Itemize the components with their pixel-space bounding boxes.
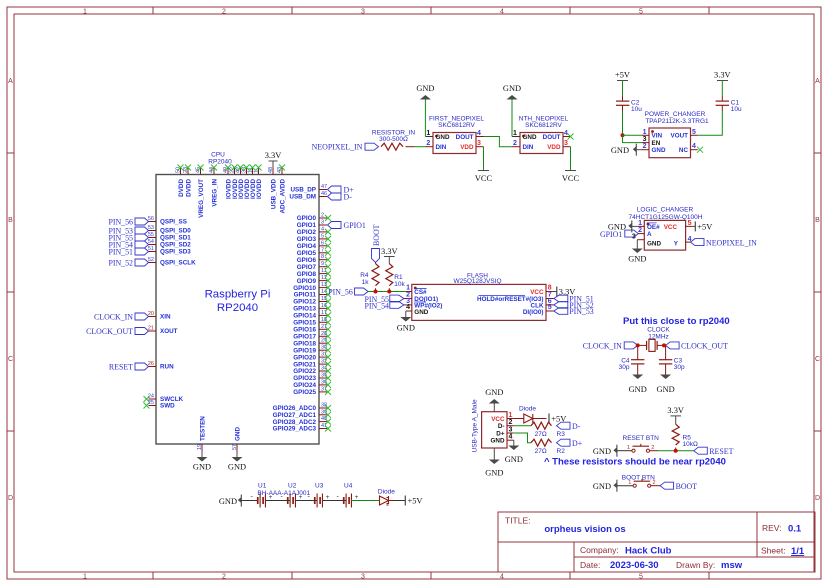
- svg-text:GPIO24: GPIO24: [293, 382, 316, 389]
- wire junction to VIN: [623, 134, 643, 136]
- wire PIN_56 to CS#: [368, 291, 406, 293]
- wire junction to EN: [623, 135, 643, 142]
- ground (sideways) at BOOT button: [593, 480, 633, 492]
- svg-text:U1: U1: [258, 482, 267, 489]
- svg-text:0.1: 0.1: [788, 524, 802, 535]
- svg-text:300-500Ω: 300-500Ω: [379, 136, 408, 143]
- wire NTH_NEOPIXEL VDD to VCC: [570, 147, 572, 171]
- power 3.3V (sideways) at flash VCC: [552, 287, 575, 297]
- svg-text:XIN: XIN: [160, 314, 171, 321]
- svg-text:POWER_CHANGER: POWER_CHANGER: [645, 111, 706, 118]
- svg-text:55: 55: [148, 232, 154, 238]
- svg-text:1k: 1k: [362, 279, 370, 286]
- svg-text:10u: 10u: [731, 106, 742, 113]
- svg-text:26: 26: [148, 361, 154, 367]
- wire C2 to VIN junction: [622, 111, 624, 135]
- svg-text:GPIO2: GPIO2: [297, 229, 317, 236]
- ground (sideways) at RESET button: [593, 445, 632, 457]
- power +5V above C2: [615, 71, 630, 81]
- junction R5/RESET: [674, 449, 678, 453]
- svg-text:D+: D+: [496, 430, 505, 437]
- svg-text:CLOCK_OUT: CLOCK_OUT: [681, 342, 728, 351]
- svg-text:GND: GND: [593, 447, 611, 456]
- svg-text:BOOT BTN: BOOT BTN: [622, 474, 655, 481]
- junction crystal right: [662, 343, 666, 347]
- svg-text:Diode: Diode: [378, 489, 395, 496]
- svg-text:30p: 30p: [674, 364, 685, 371]
- diode (schottky) battery: [378, 489, 395, 505]
- svg-text:7: 7: [321, 247, 324, 253]
- svg-text:1: 1: [83, 574, 87, 581]
- svg-text:Sheet:: Sheet:: [761, 546, 786, 556]
- svg-text:B: B: [815, 217, 820, 224]
- svg-text:GPIO16: GPIO16: [293, 327, 316, 334]
- svg-text:B: B: [8, 217, 13, 224]
- svg-text:GPIO22: GPIO22: [293, 368, 316, 375]
- svg-text:Diode: Diode: [519, 406, 536, 413]
- svg-text:GND: GND: [485, 468, 503, 477]
- svg-text:USB-Type A_Male: USB-Type A_Male: [472, 399, 479, 452]
- GPIO pin names: [293, 215, 316, 396]
- svg-text:GPIO1: GPIO1: [600, 230, 622, 239]
- ic FLASH W25Q128JVSIQ: [404, 272, 554, 320]
- pin 26 RUN with global label RESET: [109, 361, 174, 372]
- svg-text:GND: GND: [491, 438, 505, 445]
- svg-text:W25Q128JVSIQ: W25Q128JVSIQ: [453, 278, 501, 285]
- svg-text:GPIO25: GPIO25: [293, 389, 316, 396]
- svg-text:IOVDD: IOVDD: [256, 179, 263, 199]
- pin 52 QSPI_SCLK with global label PIN_52: [108, 257, 196, 268]
- junction R1: [387, 290, 391, 294]
- svg-text:PIN_54: PIN_54: [364, 302, 389, 311]
- ic FIRST_NEOPIXEL SKC6812RV: [425, 115, 484, 153]
- svg-text:DVDD: DVDD: [185, 179, 192, 197]
- ic POWER_CHANGER TPAP2112K-3.3TRG1: [642, 111, 709, 158]
- svg-text:2023-06-30: 2023-06-30: [610, 560, 659, 571]
- svg-text:52: 52: [148, 257, 154, 263]
- svg-text:U3: U3: [315, 482, 324, 489]
- ground below C3: [657, 375, 675, 394]
- power 3.3V at USB_VDD: [265, 151, 282, 168]
- pin 55 QSPI_SD1 with global label PIN_55: [108, 232, 191, 243]
- svg-text:D-: D-: [344, 193, 353, 202]
- resistor R2 27ohm: [531, 439, 565, 455]
- global label D+: [557, 439, 583, 448]
- svg-text:GND: GND: [505, 455, 523, 464]
- wire switch to BOOT label: [651, 485, 660, 487]
- svg-text:RESET: RESET: [109, 363, 133, 372]
- svg-text:1/1: 1/1: [791, 546, 805, 557]
- pin 53 QSPI_SD0 with global label PIN_53: [108, 225, 191, 236]
- svg-text:GPIO1: GPIO1: [344, 221, 366, 230]
- connector USB-Type A_Male: [472, 399, 514, 452]
- svg-text:PIN_56: PIN_56: [108, 218, 133, 227]
- pin 47 USB_DP with global label D+: [290, 184, 354, 195]
- svg-text:USB_VDD: USB_VDD: [270, 179, 277, 210]
- TITLEBLOCK: [498, 512, 815, 572]
- no-connect X on NTH DOUT: [568, 134, 574, 140]
- svg-text:D: D: [8, 495, 13, 502]
- svg-text:1: 1: [638, 220, 642, 227]
- svg-text:USB_DM: USB_DM: [289, 194, 316, 201]
- svg-text:Company:: Company:: [580, 545, 619, 555]
- global label BOOT: [660, 482, 697, 491]
- svg-text:LOGIC_CHANGER: LOGIC_CHANGER: [637, 207, 694, 214]
- svg-text:+5V: +5V: [615, 71, 630, 80]
- svg-text:orpheus vision os: orpheus vision os: [544, 524, 625, 535]
- svg-text:3: 3: [477, 140, 481, 147]
- svg-text:QSPI_SD1: QSPI_SD1: [160, 235, 191, 242]
- wire NTH_NEOPIXEL GND pin to ground: [511, 100, 513, 137]
- svg-text:VCC: VCC: [475, 174, 493, 183]
- svg-text:5: 5: [321, 233, 324, 239]
- svg-text:GND: GND: [416, 84, 434, 93]
- svg-text:A: A: [647, 231, 652, 238]
- no-connect marks on GPIO pins: [325, 215, 331, 395]
- RP2040 GPIO pins GPIO0-GPIO25: [319, 218, 327, 392]
- pin 51 QSPI_SD3 with global label PIN_51: [108, 246, 191, 257]
- svg-text:GPIO6: GPIO6: [297, 257, 317, 264]
- diode at USB VCC: [514, 406, 547, 423]
- svg-text:RP2040: RP2040: [217, 302, 258, 314]
- svg-text:47: 47: [321, 184, 327, 190]
- svg-text:XOUT: XOUT: [160, 328, 178, 335]
- svg-text:GND: GND: [234, 427, 241, 441]
- svg-text:A: A: [815, 78, 820, 85]
- svg-text:VIN: VIN: [652, 133, 663, 140]
- svg-text:U2: U2: [288, 482, 297, 489]
- svg-text:19: 19: [197, 444, 203, 450]
- wire FIRST_NEOPIXEL DOUT to NTH_NEOPIXEL DIN: [484, 137, 513, 147]
- ic LOGIC_CHANGER 74HCT1G125GW-Q100H: [629, 207, 703, 250]
- svg-text:GPIO20: GPIO20: [293, 354, 316, 361]
- global label CLOCK_OUT: [666, 342, 728, 351]
- svg-text:Date:: Date:: [580, 560, 600, 570]
- pin 24 SWCLK (no-connect): [144, 394, 184, 404]
- power +5V (sideways) after diode: [549, 414, 566, 424]
- svg-text:3.3V: 3.3V: [381, 247, 398, 256]
- svg-text:3: 3: [643, 136, 647, 143]
- svg-text:3: 3: [361, 9, 365, 16]
- svg-text:24: 24: [148, 394, 154, 400]
- svg-text:Hack Club: Hack Club: [625, 546, 672, 557]
- svg-text:RUN: RUN: [160, 364, 174, 371]
- svg-text:DI(IO0): DI(IO0): [523, 309, 544, 316]
- svg-text:10k: 10k: [394, 281, 405, 288]
- svg-text:57: 57: [232, 444, 238, 450]
- svg-text:54: 54: [148, 239, 154, 245]
- ground below LOGIC_CHANGER: [628, 249, 646, 264]
- svg-text:PIN_51: PIN_51: [108, 248, 133, 257]
- svg-text:1: 1: [628, 480, 631, 486]
- svg-text:VCC: VCC: [491, 416, 505, 423]
- svg-text:CLOCK_IN: CLOCK_IN: [94, 313, 133, 322]
- global label NEOPIXEL_IN at Y: [691, 238, 758, 247]
- power +5V (sideways) battery output: [395, 496, 422, 506]
- resistor R3 27ohm: [531, 422, 565, 438]
- svg-text:GND: GND: [397, 324, 415, 333]
- svg-text:GND: GND: [414, 309, 428, 316]
- svg-text:GND: GND: [593, 482, 611, 491]
- svg-text:1: 1: [254, 170, 260, 173]
- global label PIN_56 at flash CS: [328, 288, 368, 297]
- svg-text:EN: EN: [652, 140, 661, 147]
- svg-text:2: 2: [513, 140, 517, 147]
- svg-text:56: 56: [148, 216, 154, 222]
- power +5V (sideways) at VCC pin5: [693, 221, 712, 231]
- svg-text:51: 51: [148, 246, 154, 252]
- global label PIN_52 at CLK: [554, 301, 594, 310]
- global label GPIO1 to A: [600, 230, 638, 239]
- svg-text:5: 5: [639, 574, 643, 581]
- pin 20 XIN with global label CLOCK_IN: [94, 311, 171, 322]
- svg-text:D: D: [815, 495, 820, 502]
- svg-text:2: 2: [222, 574, 226, 581]
- junction R4: [374, 290, 378, 294]
- svg-text:GPIO11: GPIO11: [294, 292, 317, 299]
- svg-text:C: C: [8, 356, 13, 363]
- svg-text:+5V: +5V: [697, 223, 712, 232]
- svg-text:1: 1: [627, 445, 630, 451]
- svg-text:GND: GND: [193, 463, 211, 472]
- svg-text:GPIO18: GPIO18: [293, 340, 316, 347]
- svg-text:+5V: +5V: [408, 497, 423, 506]
- svg-text:QSPI_SD0: QSPI_SD0: [160, 228, 191, 235]
- svg-text:5: 5: [548, 304, 552, 311]
- svg-text:QSPI_SD2: QSPI_SD2: [160, 242, 191, 249]
- svg-text:VDD: VDD: [547, 144, 561, 151]
- wire C1 to 3.3V: [721, 81, 723, 97]
- svg-text:DVDD: DVDD: [178, 179, 185, 197]
- svg-text:20: 20: [148, 311, 154, 317]
- svg-text:GPIO0: GPIO0: [297, 215, 317, 222]
- svg-text:ADC_AVDD: ADC_AVDD: [279, 179, 286, 214]
- ground below USB shell: [485, 448, 503, 477]
- svg-text:GPIO29_ADC3: GPIO29_ADC3: [273, 426, 317, 433]
- svg-text:27Ω: 27Ω: [535, 431, 547, 438]
- svg-text:2: 2: [321, 213, 324, 219]
- svg-text:1: 1: [426, 130, 430, 137]
- svg-text:C: C: [815, 356, 820, 363]
- ground at USB GND pin: [505, 440, 523, 464]
- svg-text:2: 2: [426, 140, 430, 147]
- svg-text:3: 3: [361, 574, 365, 581]
- ground at flash GND pin: [397, 311, 415, 333]
- wire +5V to C2: [622, 81, 624, 97]
- svg-text:VCC: VCC: [562, 174, 580, 183]
- svg-text:8: 8: [548, 285, 552, 292]
- wire pin3 to ground: [636, 240, 638, 249]
- ground (sideways) at battery string: [219, 495, 258, 507]
- svg-text:D-: D-: [572, 422, 581, 431]
- svg-text:DIN: DIN: [436, 144, 447, 151]
- svg-text:1: 1: [643, 129, 647, 136]
- battery U1: [251, 482, 273, 507]
- svg-text:3.3V: 3.3V: [667, 406, 684, 415]
- RP2040 ADC pins GPIO26-29: [319, 408, 327, 429]
- svg-text:TPAP2112K-3.3TRG1: TPAP2112K-3.3TRG1: [645, 118, 709, 125]
- wire switch to RESET label: [650, 450, 658, 452]
- ic U_CPU reference CPU / RP2040: [208, 152, 232, 166]
- svg-text:CS#: CS#: [414, 289, 427, 296]
- svg-text:CLOCK_OUT: CLOCK_OUT: [86, 327, 133, 336]
- switch BOOT BTN: [622, 474, 656, 487]
- svg-text:VOUT: VOUT: [671, 133, 689, 140]
- svg-text:1: 1: [513, 130, 517, 137]
- crystal CLOCK 12MHz: [638, 327, 671, 352]
- svg-text:GND: GND: [611, 146, 629, 155]
- svg-text:R3: R3: [557, 431, 566, 438]
- battery U2: [281, 482, 303, 507]
- wire VOUT to C1: [698, 111, 723, 135]
- global label PIN_53 at DI: [554, 307, 594, 316]
- svg-text:46: 46: [321, 191, 327, 197]
- svg-text:4: 4: [500, 574, 504, 581]
- global label PIN_54 at WP: [364, 302, 403, 311]
- RP2040 top pin names: [178, 179, 287, 218]
- resistor RESISTOR_IN 300-500ohm: [372, 129, 416, 150]
- pin 56 QSPI_SS with global label PIN_56: [108, 216, 187, 227]
- svg-text:VCC: VCC: [530, 289, 544, 296]
- svg-text:6: 6: [321, 240, 324, 246]
- svg-text:21: 21: [148, 326, 154, 332]
- svg-text:QSPI_SS: QSPI_SS: [160, 219, 187, 226]
- pin 19 TESTEN to ground: [193, 416, 211, 472]
- svg-text:D+: D+: [572, 439, 583, 448]
- svg-text:GND: GND: [629, 385, 647, 394]
- svg-text:U4: U4: [344, 482, 353, 489]
- svg-text:RESET: RESET: [709, 447, 733, 456]
- global label GPIO1: [328, 221, 366, 230]
- svg-text:GPIO9: GPIO9: [297, 278, 317, 285]
- svg-text:msw: msw: [721, 560, 743, 571]
- svg-text:BOOT: BOOT: [676, 482, 698, 491]
- svg-text:QSPI_SD3: QSPI_SD3: [160, 249, 191, 256]
- capacitor C2 10u: [616, 96, 642, 113]
- svg-text:4: 4: [321, 226, 324, 232]
- svg-text:5: 5: [688, 220, 692, 227]
- svg-text:VREG_IN: VREG_IN: [211, 179, 218, 207]
- svg-text:SKC6812RV: SKC6812RV: [525, 122, 562, 129]
- svg-text:DOUT: DOUT: [456, 134, 474, 141]
- svg-text:R2: R2: [557, 448, 566, 455]
- svg-text:NEOPIXEL_IN: NEOPIXEL_IN: [706, 238, 757, 247]
- battery U3: [308, 482, 330, 507]
- wire D+ to R2: [514, 433, 531, 443]
- svg-text:4: 4: [477, 130, 481, 137]
- no-connect X on NC: [697, 147, 703, 153]
- svg-text:CLOCK_IN: CLOCK_IN: [583, 342, 622, 351]
- ground (sideways) at OE#: [608, 220, 637, 232]
- GPIO pin numbers: [321, 213, 327, 393]
- capacitor C1 10u: [716, 96, 742, 113]
- svg-text:1: 1: [83, 9, 87, 16]
- pin 54 QSPI_SD2 with global label PIN_54: [108, 239, 191, 250]
- svg-text:BH-AAA-A1AJ001: BH-AAA-A1AJ001: [257, 490, 310, 497]
- svg-text:8: 8: [321, 254, 324, 260]
- global label NEOPIXEL_IN: [312, 143, 379, 152]
- svg-text:DIN: DIN: [523, 144, 534, 151]
- global label PIN_55 at DO: [364, 295, 403, 304]
- svg-text:Put this close to rp2040: Put this close to rp2040: [623, 316, 730, 327]
- svg-text:1: 1: [509, 412, 513, 419]
- svg-text:53: 53: [148, 225, 154, 231]
- svg-text:USB_DP: USB_DP: [290, 187, 316, 194]
- svg-text:2: 2: [638, 227, 642, 234]
- svg-text:3: 3: [321, 220, 324, 226]
- global label D-: [557, 422, 581, 431]
- svg-text:VCC: VCC: [664, 224, 678, 231]
- ic NTH_NEOPIXEL SKC6812RV: [512, 115, 571, 153]
- svg-text:PIN_53: PIN_53: [569, 307, 594, 316]
- svg-text:GPIO4: GPIO4: [297, 243, 317, 250]
- svg-text:4: 4: [564, 130, 568, 137]
- svg-text:2: 2: [509, 419, 513, 426]
- svg-text:GND: GND: [219, 497, 237, 506]
- global label PIN_51 at HOLD: [554, 295, 594, 304]
- svg-text:NC: NC: [679, 147, 689, 154]
- resistor R1 10k with 3.3V: [381, 247, 405, 292]
- svg-text:3: 3: [564, 140, 568, 147]
- svg-text:9: 9: [321, 261, 324, 267]
- svg-text:10kΩ: 10kΩ: [683, 441, 698, 448]
- svg-text:A: A: [8, 78, 13, 85]
- pin 25 SWD (no-connect): [144, 400, 176, 410]
- svg-text:CPU: CPU: [211, 152, 225, 159]
- svg-text:25: 25: [148, 400, 154, 406]
- svg-text:PIN_56: PIN_56: [328, 288, 353, 297]
- pin 21 XOUT with global label CLOCK_OUT: [86, 326, 178, 337]
- wire resistor to DIN: [406, 146, 415, 148]
- power 3.3V above R5: [667, 406, 684, 424]
- svg-text:TESTEN: TESTEN: [199, 416, 206, 441]
- svg-text:BOOT: BOOT: [372, 224, 381, 246]
- svg-text:Drawn By:: Drawn By:: [676, 560, 715, 570]
- svg-text:GND: GND: [436, 134, 450, 141]
- wire U4 to diode: [352, 500, 380, 502]
- svg-text:GPIO15: GPIO15: [293, 320, 316, 327]
- svg-text:GND: GND: [228, 463, 246, 472]
- svg-text:GND: GND: [523, 134, 537, 141]
- resistor R5 10kohm: [672, 424, 698, 451]
- svg-text:3.3V: 3.3V: [714, 71, 731, 80]
- resistor R4 1k with BOOT label: [360, 224, 381, 291]
- svg-text:VDD: VDD: [460, 144, 474, 151]
- RP2040 top power pins: [181, 168, 283, 175]
- svg-text:4: 4: [500, 9, 504, 16]
- svg-text:5: 5: [692, 129, 696, 136]
- global label RESET: [694, 447, 734, 456]
- svg-text:3.3V: 3.3V: [265, 151, 282, 160]
- svg-text:GND: GND: [485, 388, 503, 397]
- no-connect marks on top pins: [178, 165, 286, 171]
- pin 46 USB_DM with global label D-: [289, 191, 352, 202]
- svg-text:5: 5: [639, 9, 643, 16]
- ground symbol (up) NTH_NEOPIXEL: [503, 84, 521, 100]
- svg-text:GND: GND: [657, 385, 675, 394]
- svg-text:GPIO13: GPIO13: [293, 306, 316, 313]
- svg-text:RESET BTN: RESET BTN: [623, 435, 660, 442]
- ground symbol (up) FIRST_NEOPIXEL: [416, 84, 434, 100]
- svg-text:TITLE:: TITLE:: [505, 516, 531, 526]
- junction at VIN: [621, 133, 625, 137]
- wire D- to R3: [514, 425, 531, 427]
- ic U_CPU value Raspberry Pi RP2040: [205, 288, 271, 314]
- svg-text:1: 1: [406, 285, 410, 292]
- ic U_CPU RP2040 body: [156, 175, 319, 445]
- pin 57 GND to ground: [228, 427, 246, 472]
- power VCC below FIRST_NEOPIXEL: [475, 171, 493, 184]
